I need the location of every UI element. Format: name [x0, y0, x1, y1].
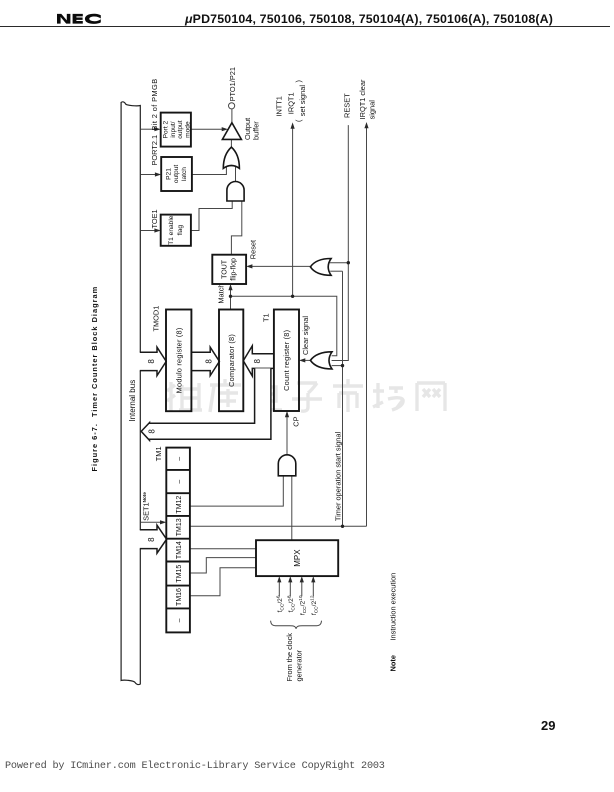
PTO1/P21 pin circle — [229, 103, 235, 109]
bus arrow 8 to TM1 register — [140, 525, 167, 553]
svg-text:Port 2: Port 2 — [162, 120, 169, 138]
svg-text:Reset: Reset — [249, 240, 258, 259]
box p21 output latch — [161, 157, 192, 191]
svg-text:Clear signal: Clear signal — [301, 316, 310, 355]
box modulo register — [166, 310, 191, 412]
wire RESET line — [332, 125, 349, 360]
svg-text:fCC/28: fCC/28 — [287, 595, 297, 612]
box comparator — [219, 310, 243, 412]
wire clear OR to count register — [304, 359, 311, 361]
svg-text:8: 8 — [147, 537, 156, 542]
svg-text:PORT2.1: PORT2.1 — [150, 135, 159, 166]
wire TM16 to MPX — [190, 568, 257, 596]
svg-text:flag: flag — [177, 225, 184, 236]
box port 2 input/output mode — [161, 113, 192, 147]
bus arrow 8 count register to comparator — [243, 346, 274, 376]
svg-text:T1 enable: T1 enable — [168, 215, 175, 245]
svg-text:Modulo register (8): Modulo register (8) — [175, 327, 184, 393]
svg-text:INTT1: INTT1 — [274, 96, 283, 117]
bus arrow 8 modulo to comparator — [191, 347, 219, 375]
svg-text:IRQT1: IRQT1 — [287, 92, 296, 114]
svg-text:MPX: MPX — [293, 549, 302, 567]
svg-text:8: 8 — [205, 359, 214, 364]
box TOUT flip-flop — [212, 255, 246, 284]
box t1 enable flag — [161, 215, 191, 246]
wire bus to port2 mode box — [141, 128, 156, 130]
svg-text:TM14: TM14 — [176, 541, 183, 559]
svg-text:signal: signal — [367, 100, 376, 120]
box count register — [274, 310, 299, 412]
svg-text:Figure 6-7. Timer Counter Blo: Figure 6-7. Timer Counter Block Diagram — [90, 286, 99, 472]
AND gate output stage — [227, 181, 244, 201]
wire t1 enable flag to AND gate — [191, 200, 232, 230]
svg-text:–: – — [176, 457, 183, 461]
svg-text:Count register (8): Count register (8) — [282, 330, 291, 391]
wire IRQT1 clear signal line — [366, 126, 368, 526]
wire comparator match to TOUT — [230, 288, 232, 309]
svg-text:generator: generator — [295, 649, 304, 681]
wire TM12 to clock AND gate — [190, 475, 283, 506]
wire bus to t1 enable box — [141, 230, 156, 232]
wire TOUT flip-flop to AND gate — [231, 200, 241, 254]
wire MPX to clock AND gate — [291, 475, 293, 540]
OR gate count clear — [310, 352, 332, 369]
svg-text:SET1Note: SET1Note — [142, 492, 151, 521]
svg-text:CP: CP — [292, 416, 301, 426]
header rule — [0, 26, 610, 28]
wire buffer to PTO1 pin — [231, 109, 233, 123]
svg-text:Note: Note — [389, 655, 398, 671]
svg-text:Comparator (8): Comparator (8) — [227, 334, 236, 387]
wire timer start to reset OR input — [330, 270, 342, 272]
wire reset OR to TOUT — [251, 265, 311, 267]
svg-text:8: 8 — [253, 358, 262, 363]
wire TM14 to MPX — [190, 548, 257, 550]
OR gate TOUT reset — [310, 259, 331, 276]
wire timer start to clear OR input — [332, 365, 343, 367]
wire INTT1 IRQT1 set signal — [292, 127, 294, 297]
svg-text:output: output — [173, 165, 180, 184]
junction match-TOUT — [229, 295, 232, 298]
svg-text:IRQT1 clear: IRQT1 clear — [358, 79, 367, 119]
wire OR to buffer — [230, 139, 232, 147]
svg-text:Bit 2 of PMGB: Bit 2 of PMGB — [150, 78, 159, 130]
bus arrow 8 count register back to internal bus — [141, 368, 271, 440]
svg-text:RESET: RESET — [343, 93, 352, 118]
svg-text:8: 8 — [148, 429, 157, 434]
internal bus — [121, 102, 140, 685]
AND gate count clock — [278, 455, 296, 476]
svg-text:fCC/26: fCC/26 — [276, 595, 286, 612]
wire AND to OR — [235, 166, 237, 184]
wire match to clear OR gate — [231, 296, 337, 355]
wire fcc/2^8 into MPX — [289, 580, 291, 596]
svg-text:TM12: TM12 — [176, 496, 183, 514]
svg-text:Timer operation start signal: Timer operation start signal — [334, 431, 343, 521]
wire fcc/2^10 into MPX — [301, 580, 303, 596]
wire TM15 to MPX — [190, 558, 257, 573]
svg-text:input/: input/ — [170, 121, 177, 137]
svg-text:flip-flop: flip-flop — [231, 258, 238, 281]
svg-text:Output: Output — [243, 118, 252, 140]
svg-text:–: – — [176, 618, 183, 622]
wire fcc/2^12 into MPX — [312, 580, 314, 596]
svg-text:PTO1/P21: PTO1/P21 — [228, 67, 237, 101]
wire p21 latch to OR gate — [192, 165, 227, 174]
brace clock inputs — [271, 621, 322, 629]
junction match-INTT1 — [291, 295, 294, 298]
svg-text:TM1: TM1 — [154, 446, 163, 461]
wire fcc/2^6 into MPX — [278, 580, 280, 596]
box MPX — [256, 540, 338, 576]
svg-text:TMOD1: TMOD1 — [152, 306, 161, 332]
svg-text:TM13: TM13 — [176, 518, 183, 536]
svg-text:set signal: set signal — [298, 85, 307, 117]
svg-text:8: 8 — [147, 359, 156, 364]
OR gate output stage — [223, 147, 239, 168]
svg-text:–: – — [176, 480, 183, 484]
svg-text:): ) — [294, 80, 303, 82]
svg-text:output: output — [177, 120, 184, 139]
svg-text:buffer: buffer — [252, 121, 261, 140]
junction timer start at clear OR — [341, 364, 344, 367]
bus arrow 8 to modulo register — [140, 347, 167, 375]
svg-text:From the clock: From the clock — [285, 633, 294, 682]
page number — [541, 718, 555, 733]
svg-text:TOE1: TOE1 — [150, 209, 159, 228]
svg-text:TM16: TM16 — [176, 588, 183, 606]
wire port2 box to output buffer — [191, 128, 223, 130]
svg-text:Instruction execution: Instruction execution — [389, 573, 398, 641]
svg-text:fCC/212: fCC/212 — [310, 595, 320, 615]
svg-text:TOUT: TOUT — [222, 259, 229, 279]
wire bus to p21 latch box — [141, 174, 156, 176]
svg-text:(: ( — [294, 119, 303, 122]
footer credit — [5, 761, 385, 772]
svg-text:TM15: TM15 — [176, 565, 183, 583]
wire timer operation start line — [342, 271, 344, 526]
document title — [185, 12, 553, 26]
wire TM13 timer start vertical — [190, 525, 367, 527]
wire clock AND to count register CP — [286, 415, 288, 455]
wire SET1 into TM1 register — [141, 521, 161, 523]
register TM1 — [166, 448, 190, 633]
svg-text:Match: Match — [216, 283, 225, 303]
junction timer start at TM13 — [341, 525, 344, 528]
svg-text:latch: latch — [181, 167, 188, 181]
svg-text:fCC/210: fCC/210 — [298, 595, 308, 615]
output buffer triangle — [222, 123, 241, 140]
svg-text:mode: mode — [185, 121, 192, 138]
svg-text:P21: P21 — [165, 168, 172, 180]
svg-text:T1: T1 — [261, 313, 270, 322]
junction RESET — [347, 261, 350, 264]
wire RESET to reset OR input — [330, 262, 349, 264]
svg-text:Internal bus: Internal bus — [128, 380, 137, 422]
